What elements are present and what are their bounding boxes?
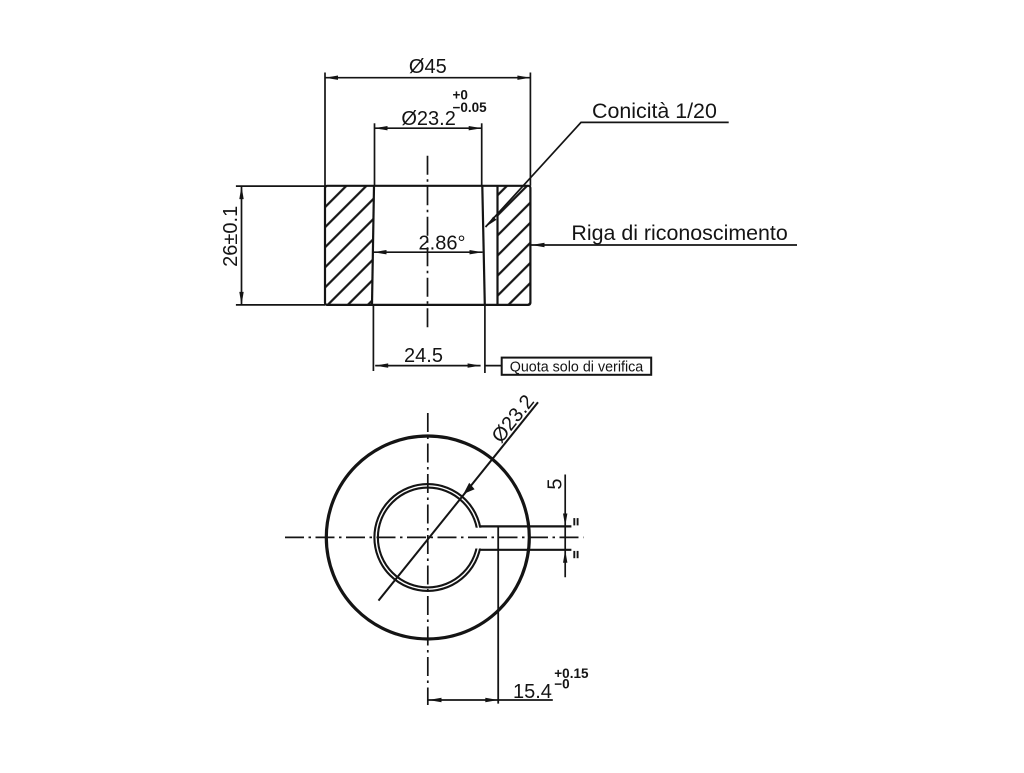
= (symmetry) symbols [574,518,577,558]
24.5 dim line + connector to box [375,365,480,367]
15.4 dimension [429,699,553,701]
slot right edge + 15.4 ext line [497,526,499,703]
5 dimension [564,475,566,578]
24.5 ext lines [372,305,374,371]
keyway bottom line in section [496,186,498,305]
center lines bottom view [285,536,583,538]
svg-text:−0: −0 [554,677,569,692]
svg-text:26±0.1: 26±0.1 [220,206,242,267]
bore left line (tapered) [372,186,374,305]
keyway slot lines + ext lines for 5 [480,526,572,703]
svg-text:Riga di riconoscimento: Riga di riconoscimento [571,221,787,245]
svg-text:24.5: 24.5 [404,345,443,367]
leader D23.2 [379,402,539,600]
centerline top view [427,156,429,331]
svg-text:Ø23.2: Ø23.2 [401,108,455,130]
conicita arrow: direction from (581,122.4) to (485.5,227) [486,217,497,227]
quota box [502,358,652,375]
svg-text:2.86°: 2.86° [419,233,466,255]
26 dim line [241,186,243,305]
conicita leader [486,122,729,227]
part outline [325,186,530,305]
keyway opening mask [475,528,498,549]
bore right line (tapered) [482,186,485,305]
2.86 dim line [374,251,483,253]
svg-text:5: 5 [545,478,567,489]
right wall hatch [498,186,531,305]
arrows top view [239,76,544,368]
D23.2 dim line [375,127,482,129]
inner bore circles [374,484,481,591]
left wall hatch [325,186,374,305]
outer circle [326,436,529,639]
D45 ext lines [324,73,326,186]
D23.2 ext lines [374,123,376,186]
riga leader [532,244,798,246]
svg-text:15.4: 15.4 [513,681,552,703]
svg-text:Ø45: Ø45 [409,56,447,78]
svg-text:Conicità 1/20: Conicità 1/20 [592,99,717,123]
svg-text:−0.05: −0.05 [453,100,488,115]
D45 dim line [325,77,530,79]
svg-text:Quota solo di verifica: Quota solo di verifica [510,359,644,375]
26 ext lines [236,185,325,187]
dimension lines [236,73,797,374]
